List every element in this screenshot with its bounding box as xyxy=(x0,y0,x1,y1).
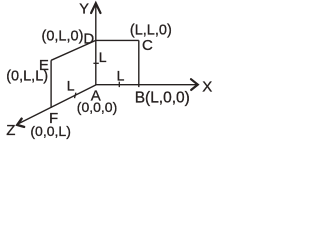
svg-text:(0,0,0): (0,0,0) xyxy=(77,99,117,115)
svg-text:D: D xyxy=(83,30,94,47)
Z axis arrowhead xyxy=(17,119,24,127)
svg-text:(0,0,L): (0,0,L) xyxy=(30,123,70,139)
wire E-F xyxy=(50,60,52,108)
wire C-B (square right edge, through B below axis) xyxy=(138,40,140,87)
tick L on X axis xyxy=(118,82,120,87)
svg-text:L: L xyxy=(117,68,125,84)
svg-text:Z: Z xyxy=(6,122,15,139)
svg-text:(0,L,0): (0,L,0) xyxy=(42,28,84,44)
svg-text:C: C xyxy=(142,37,153,54)
svg-text:B(L,0,0): B(L,0,0) xyxy=(135,89,190,106)
tick L on Z axis xyxy=(75,93,76,99)
svg-text:(L,L,0): (L,L,0) xyxy=(130,22,172,38)
X axis xyxy=(96,84,197,86)
Y axis arrowhead xyxy=(91,3,100,13)
Y axis xyxy=(95,5,97,85)
tick L on Y axis xyxy=(93,62,98,64)
wire D-E xyxy=(51,40,96,60)
Z axis xyxy=(19,85,96,124)
wire D-C (square top edge) xyxy=(96,39,139,41)
svg-text:X: X xyxy=(202,78,212,95)
svg-text:(0,L,L): (0,L,L) xyxy=(6,69,48,85)
svg-text:L: L xyxy=(99,49,107,65)
svg-text:Y: Y xyxy=(79,1,89,17)
X axis arrowhead xyxy=(191,79,198,90)
svg-text:L: L xyxy=(67,78,75,94)
